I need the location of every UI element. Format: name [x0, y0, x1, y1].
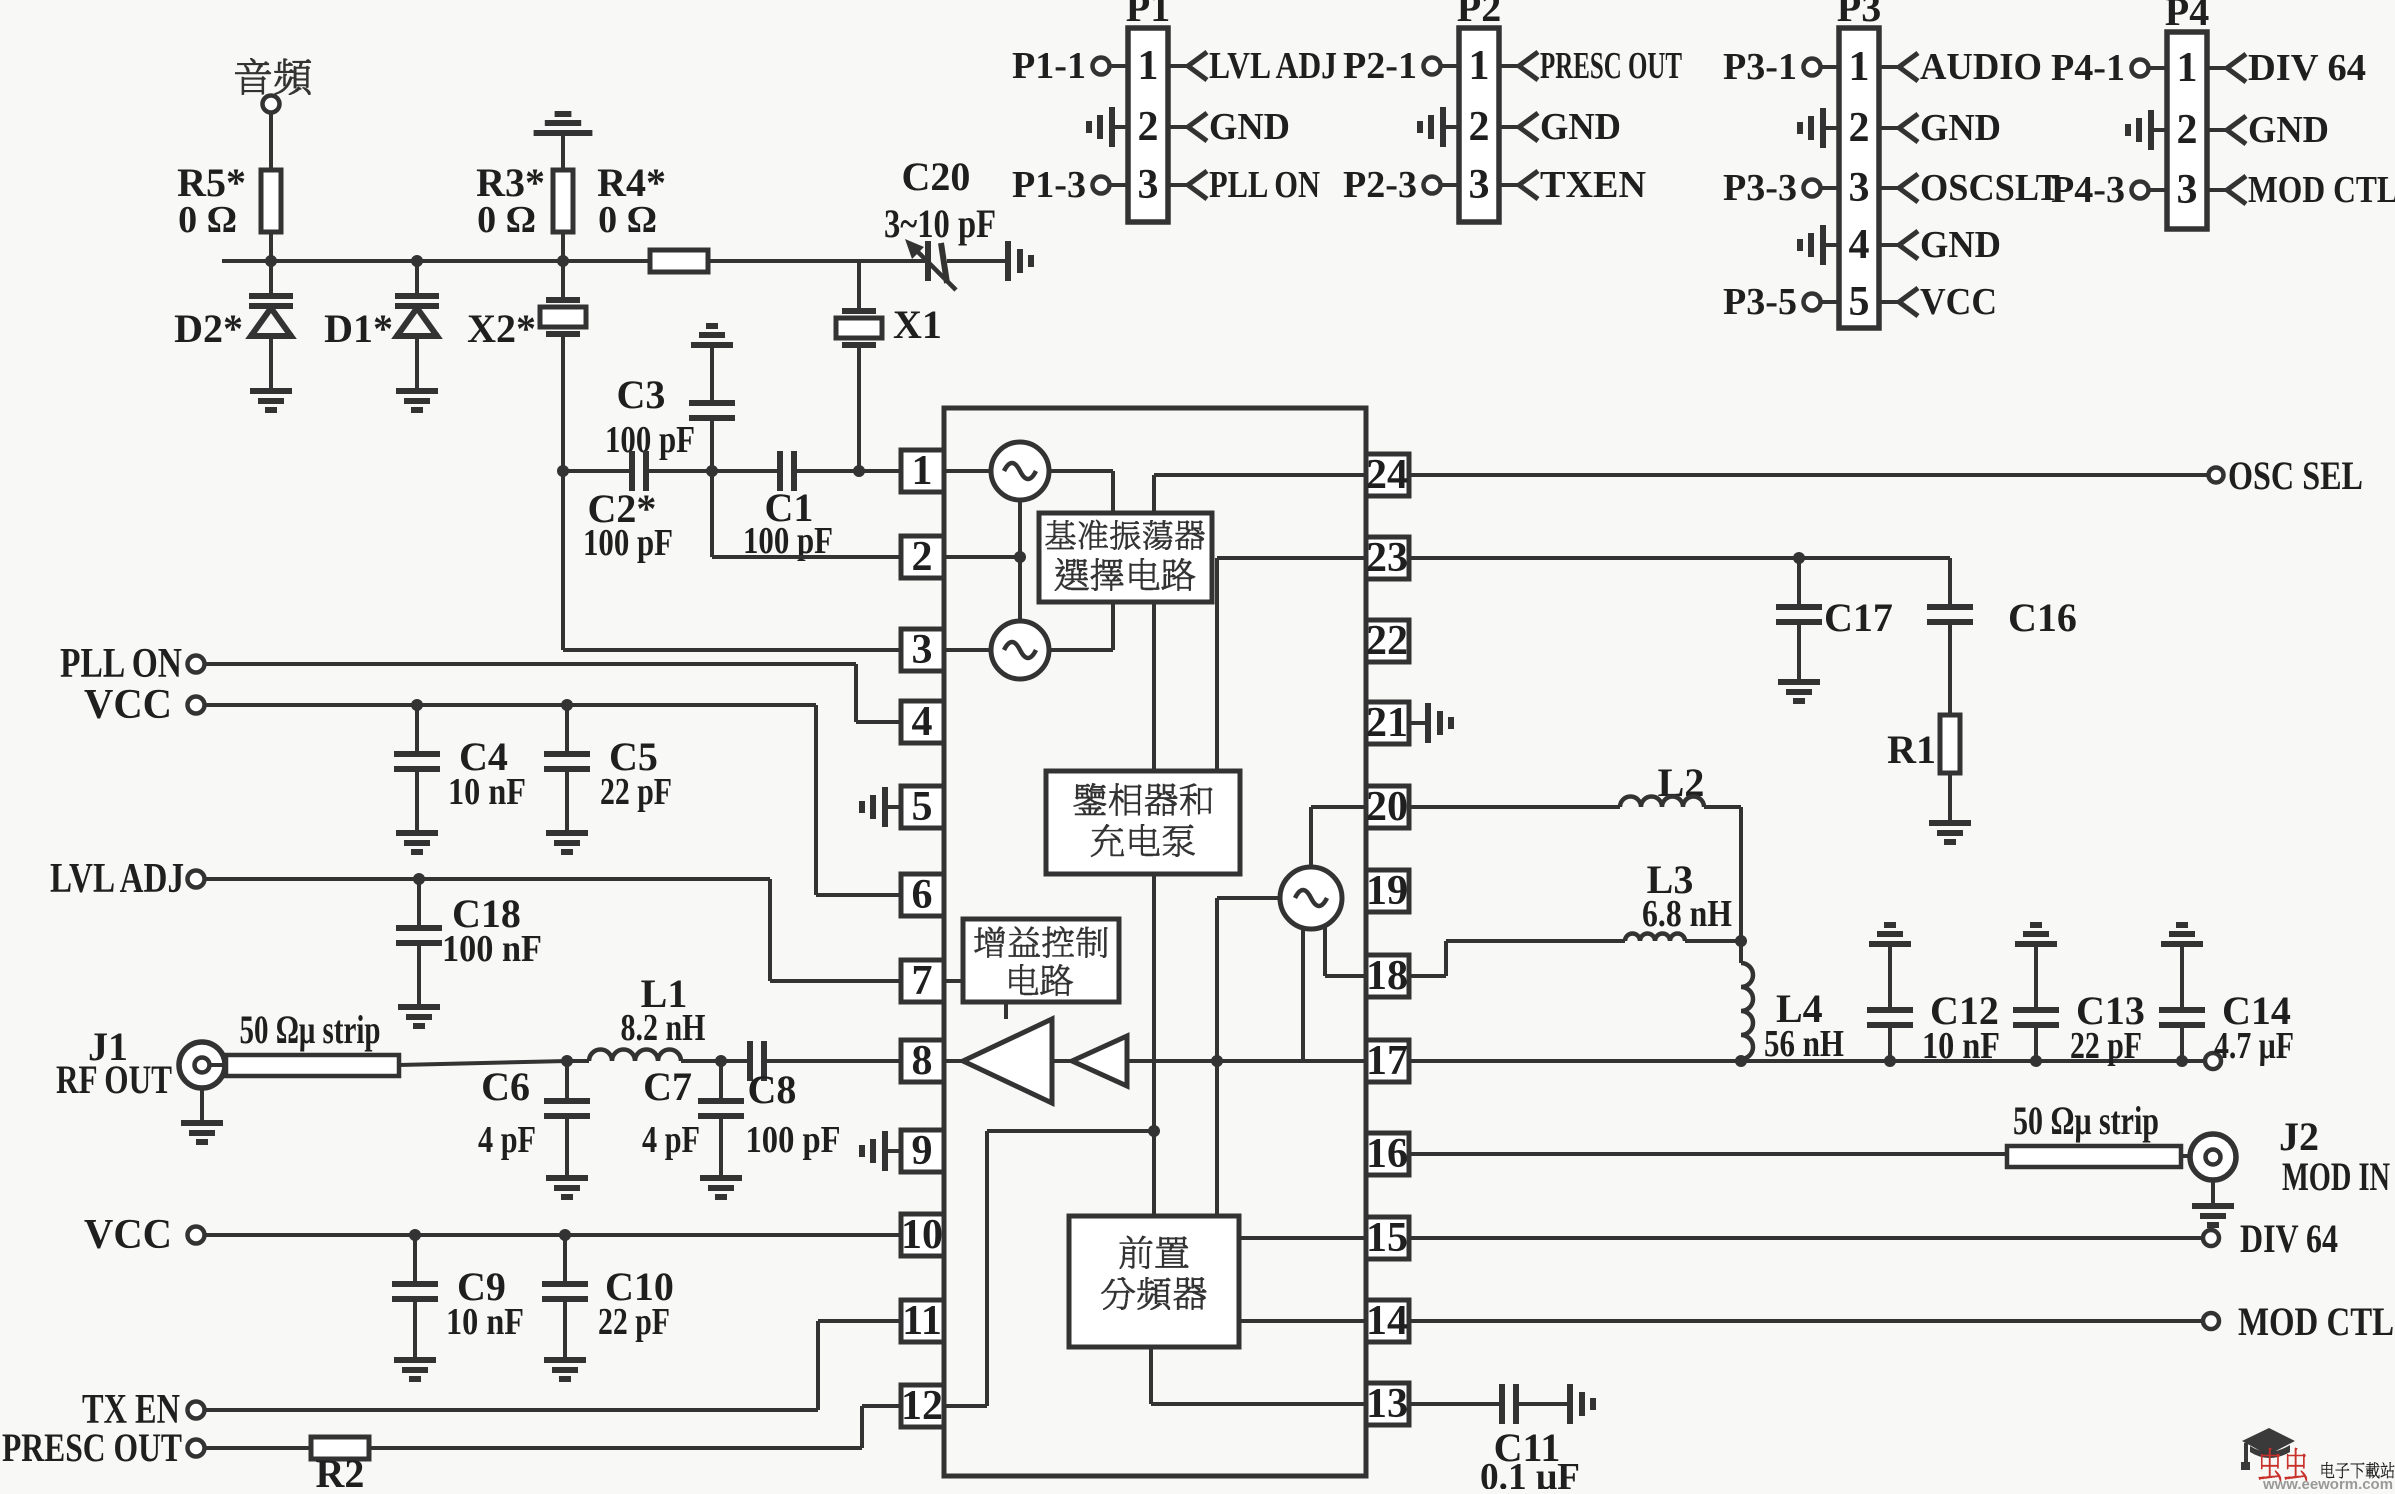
svg-text:9: 9: [912, 1128, 933, 1174]
svg-text:8.2 nH: 8.2 nH: [621, 1007, 706, 1049]
svg-text:2: 2: [912, 534, 933, 580]
capacitor C1: [712, 469, 780, 473]
wire VCO to pin 18: [1323, 924, 1327, 976]
svg-text:6.8 nH: 6.8 nH: [1642, 893, 1732, 935]
capacitor C10: [563, 1235, 567, 1284]
U1 pin 17: [1366, 1040, 1409, 1082]
svg-text:20: 20: [1366, 784, 1408, 830]
U1 pin 13: [1366, 1383, 1409, 1425]
node C6 junction: [561, 1055, 573, 1067]
amplifier A2: [1072, 1036, 1127, 1086]
net OSCSLT: [1879, 186, 1899, 190]
svg-text:3: 3: [2177, 167, 2198, 213]
svg-text:AUDIO: AUDIO: [1920, 46, 2042, 88]
wire pin 24 to OSC SEL: [1154, 473, 1366, 477]
svg-text:1: 1: [2177, 45, 2198, 91]
svg-text:VCC: VCC: [84, 682, 172, 728]
capacitor C8: [721, 1059, 750, 1063]
svg-text:8: 8: [912, 1038, 933, 1084]
svg-text:C8: C8: [748, 1067, 797, 1112]
svg-text:10 nF: 10 nF: [448, 771, 526, 813]
svg-text:22: 22: [1366, 618, 1408, 664]
net PLL ON: [1168, 183, 1188, 187]
U1 pin 9: [901, 1130, 944, 1172]
svg-text:15: 15: [1366, 1215, 1408, 1261]
capacitor C7: [719, 1061, 723, 1101]
svg-text:4.7 μF: 4.7 μF: [2214, 1025, 2294, 1067]
svg-text:D2*: D2*: [174, 306, 243, 351]
wire: [563, 259, 650, 263]
U1 pin 16: [1366, 1133, 1409, 1175]
svg-text:3: 3: [1138, 162, 1159, 208]
wire C3 junction to pin 2: [710, 471, 714, 557]
svg-text:GND: GND: [2248, 109, 2329, 151]
svg-text:D1*: D1*: [324, 306, 393, 351]
svg-text:X1: X1: [893, 302, 942, 347]
node C2/C3 junction: [706, 465, 718, 477]
diode D1 (varactor): [415, 261, 419, 296]
node 音频 (audio input terminal): [235, 58, 310, 94]
wire L2 down: [1739, 807, 1743, 941]
svg-text:C17: C17: [1824, 595, 1893, 640]
wire VCC to pin 6: [205, 703, 816, 707]
svg-text:GND: GND: [1920, 107, 2001, 149]
net TXEN: [1499, 183, 1519, 187]
capacitor C12: [1869, 925, 1911, 944]
wire LVL ADJ to pin 7: [205, 877, 770, 881]
svg-text:5: 5: [912, 784, 933, 830]
svg-text:2: 2: [1469, 104, 1490, 150]
svg-text:4 pF: 4 pF: [478, 1119, 536, 1161]
wire X2 branch to pin 3: [563, 648, 901, 652]
ground: [1570, 1384, 1593, 1424]
svg-text:0 Ω: 0 Ω: [598, 199, 657, 241]
svg-text:LVL ADJ: LVL ADJ: [1209, 45, 1337, 87]
crystal X2: [561, 261, 565, 300]
U1 pin 18: [1366, 955, 1409, 997]
wire: [399, 1061, 567, 1065]
svg-text:1: 1: [1138, 43, 1159, 89]
wire block to phase detector: [1152, 602, 1156, 771]
ground: [546, 1178, 588, 1197]
svg-text:13: 13: [1366, 1381, 1408, 1427]
svg-text:3: 3: [1469, 162, 1490, 208]
svg-text:PLL ON: PLL ON: [60, 641, 182, 687]
svg-text:OSC SEL: OSC SEL: [2228, 453, 2363, 498]
svg-text:10 nF: 10 nF: [1922, 1025, 2000, 1067]
ground: [544, 1360, 586, 1379]
net GND: [1879, 243, 1899, 247]
ground: [200, 1088, 204, 1123]
svg-text:10: 10: [901, 1212, 943, 1258]
svg-text:2: 2: [2177, 107, 2198, 153]
oscillator symbol 2: [991, 621, 1049, 679]
node main audio net wire: [222, 259, 868, 263]
wire osc1-osc2 with pin2 node: [1018, 500, 1022, 621]
U1 pin 20: [1366, 786, 1409, 828]
net DIV 64: [2207, 66, 2227, 70]
svg-text:1: 1: [1849, 44, 1870, 90]
svg-text:DIV 64: DIV 64: [2248, 47, 2366, 89]
U1 pin 1: [901, 450, 944, 492]
node C7 junction: [715, 1055, 727, 1067]
ground: [1823, 243, 1839, 247]
svg-text:18: 18: [1366, 953, 1408, 999]
svg-text:22 pF: 22 pF: [598, 1301, 670, 1343]
oscillator symbol 1 (reference osc): [944, 469, 991, 473]
wire prescaler to pin 13: [1149, 1347, 1153, 1404]
svg-text:www.eeworm.com: www.eeworm.com: [2262, 1476, 2393, 1489]
svg-text:21: 21: [1366, 700, 1408, 746]
svg-text:P4-1: P4-1: [2051, 47, 2125, 89]
ground: [534, 114, 593, 133]
wire VCO column: [1215, 898, 1219, 1216]
svg-text:C7: C7: [643, 1064, 692, 1109]
svg-text:VCC: VCC: [1920, 281, 1997, 323]
svg-text:P3-3: P3-3: [1723, 167, 1797, 209]
U1 pin 2: [901, 536, 944, 578]
net GND: [1879, 126, 1899, 130]
svg-text:OSCSLT: OSCSLT: [1920, 167, 2060, 209]
capacitor C6: [565, 1061, 569, 1101]
svg-text:P2-3: P2-3: [1343, 164, 1417, 206]
net MOD CTL: [1409, 1319, 2202, 1323]
wire pin 12 riser: [944, 1404, 987, 1408]
svg-text:RF OUT: RF OUT: [56, 1057, 172, 1102]
svg-text:C3: C3: [617, 372, 666, 417]
ground: [1008, 241, 1031, 281]
crystal X1: [857, 261, 861, 311]
capacitor C16: [1948, 558, 1952, 607]
wire phase det down to prescaler: [1152, 874, 1156, 1216]
svg-text:2: 2: [1138, 104, 1159, 150]
ground: [2211, 1180, 2215, 1206]
svg-text:R1: R1: [1887, 727, 1936, 772]
wire gain block to amplifier: [1004, 1002, 1008, 1019]
block 鉴相器和充电泵 (phase detector & charge pump): [1046, 771, 1240, 874]
svg-text:GND: GND: [1540, 106, 1621, 148]
capacitor C4: [415, 705, 419, 754]
svg-text:1: 1: [1469, 43, 1490, 89]
resistor R3: [553, 170, 573, 232]
wire PLL ON to pin 4: [205, 662, 856, 666]
svg-text:P3-5: P3-5: [1723, 281, 1797, 323]
wire pin 17 net: [1409, 1059, 2204, 1063]
net VCC: [1879, 300, 1899, 304]
ground: [2151, 128, 2167, 132]
watermark 虫虫: [2259, 1448, 2307, 1481]
svg-text:TXEN: TXEN: [1540, 164, 1646, 206]
wire VCO to pin 17 net: [1301, 927, 1305, 1061]
svg-text:23: 23: [1366, 535, 1408, 581]
svg-text:4: 4: [912, 699, 933, 745]
svg-text:17: 17: [1366, 1038, 1408, 1084]
svg-text:GND: GND: [1920, 224, 2001, 266]
ground: [546, 833, 588, 852]
wire pin 23 net: [1217, 556, 1366, 560]
net AUDIO: [1879, 65, 1899, 69]
ground: [396, 391, 438, 410]
svg-text:C20: C20: [902, 154, 971, 199]
svg-text:P1-1: P1-1: [1012, 45, 1086, 87]
svg-text:3~10 pF: 3~10 pF: [884, 201, 996, 246]
svg-text:P4: P4: [2165, 0, 2209, 34]
wire TX EN to pin 11: [205, 1408, 818, 1412]
node L2/L3/L4 junction: [1735, 935, 1747, 947]
wire VCO left: [1217, 896, 1280, 900]
svg-text:0 Ω: 0 Ω: [178, 199, 237, 241]
net PRESC OUT: [1499, 64, 1519, 68]
block 增益控制电路 (gain control): [963, 919, 1119, 1002]
net OSC SEL: [1409, 473, 2207, 477]
svg-text:MOD IN: MOD IN: [2282, 1154, 2390, 1199]
U1 pin 6: [901, 874, 944, 916]
capacitor C11: [1409, 1402, 1502, 1406]
oscillator symbol VCO: [1280, 867, 1342, 929]
diode D2 (varactor): [269, 261, 273, 296]
svg-text:VCC: VCC: [84, 1212, 172, 1258]
resistor R2: [205, 1446, 311, 1450]
net GND: [1499, 125, 1519, 129]
svg-text:1: 1: [912, 448, 933, 494]
ground at pin 9: [885, 1149, 901, 1153]
node X1 junction: [853, 465, 865, 477]
svg-text:16: 16: [1366, 1131, 1408, 1177]
svg-text:R2: R2: [316, 1451, 365, 1489]
block 前置分频器 (prescaler): [1069, 1216, 1239, 1347]
svg-text:10 nF: 10 nF: [446, 1301, 524, 1343]
U1 pin 14: [1366, 1300, 1409, 1342]
wire amp output to pin 17: [1127, 1059, 1366, 1063]
ground: [394, 1360, 436, 1379]
watermark 电子下载站: [2322, 1462, 2395, 1478]
svg-text:100 pF: 100 pF: [583, 522, 673, 564]
wire pin 23 net: [1409, 556, 1950, 560]
svg-text:PRESC OUT: PRESC OUT: [2, 1425, 182, 1470]
ground: [1823, 126, 1839, 130]
svg-text:0.1 μF: 0.1 μF: [1480, 1456, 1580, 1489]
wire PRESC OUT to pin 12: [369, 1446, 862, 1450]
node RF terminal: [2205, 1053, 2221, 1069]
U1 pin 8: [901, 1040, 944, 1082]
capacitor C17: [1797, 558, 1801, 607]
net GND: [1168, 125, 1188, 129]
svg-text:100 pF: 100 pF: [746, 1119, 841, 1161]
svg-text:14: 14: [1366, 1298, 1408, 1344]
svg-text:P1-3: P1-3: [1012, 164, 1086, 206]
wire: [561, 232, 565, 261]
ground at pin 21: [1409, 721, 1428, 725]
ground: [1443, 125, 1459, 129]
svg-text:5: 5: [1849, 279, 1870, 325]
ground at pin 5: [885, 805, 901, 809]
svg-text:0 Ω: 0 Ω: [477, 199, 536, 241]
net LVL ADJ: [1168, 64, 1188, 68]
net MOD CTL: [2207, 188, 2227, 192]
U1 pin 24: [1366, 454, 1409, 496]
svg-text:MOD CTL: MOD CTL: [2248, 169, 2395, 211]
node VCO feed junction: [1211, 1055, 1223, 1067]
svg-text:C6: C6: [481, 1064, 530, 1109]
svg-text:12: 12: [901, 1383, 943, 1429]
U1 pin 15: [1366, 1217, 1409, 1259]
capacitor C14: [2161, 925, 2203, 944]
U1 pin 4: [901, 701, 944, 743]
svg-text:P4-3: P4-3: [2051, 169, 2125, 211]
svg-text:X2*: X2*: [467, 306, 536, 351]
svg-text:P2-1: P2-1: [1343, 45, 1417, 87]
ground: [1112, 125, 1128, 129]
ground: [398, 1007, 440, 1026]
watermark logo graduation cap: [2241, 1428, 2295, 1470]
U1 pin 21: [1366, 702, 1409, 744]
capacitor C2*: [562, 469, 632, 473]
capacitor C18: [417, 879, 421, 928]
svg-text:PLL ON: PLL ON: [1209, 164, 1320, 206]
ground: [1948, 773, 1952, 823]
net DIV 64: [1409, 1236, 2202, 1240]
ground: [250, 391, 292, 410]
svg-text:MOD CTL: MOD CTL: [2238, 1299, 2394, 1344]
svg-text:GND: GND: [1209, 106, 1290, 148]
U1 pin 10: [901, 1214, 944, 1256]
ground: [700, 1178, 742, 1197]
ground: [1778, 682, 1820, 701]
wire VCC to pin 10: [205, 1233, 901, 1237]
wire VCO top to pin 20: [1309, 807, 1313, 867]
svg-text:3: 3: [1849, 165, 1870, 211]
U1 pin 7: [901, 960, 944, 1002]
svg-text:100 pF: 100 pF: [605, 419, 695, 461]
U1 pin 23: [1366, 537, 1409, 579]
net GND: [2207, 128, 2227, 132]
capacitor C3: [691, 326, 733, 345]
wire: [269, 232, 273, 261]
wire prescaler to pin 14: [1239, 1319, 1366, 1323]
svg-text:2: 2: [1849, 105, 1870, 151]
wire prescaler to pin 15: [1239, 1236, 1366, 1240]
capacitor C5: [565, 705, 569, 754]
svg-text:11: 11: [902, 1298, 942, 1344]
svg-text:50 Ωμ strip: 50 Ωμ strip: [2013, 1098, 2159, 1143]
resistor R1: [1940, 715, 1960, 773]
svg-text:LVL ADJ: LVL ADJ: [50, 856, 184, 902]
node pin-12 riser junction: [1148, 1125, 1160, 1137]
svg-text:7: 7: [912, 958, 933, 1004]
svg-text:4 pF: 4 pF: [642, 1119, 700, 1161]
svg-text:6: 6: [912, 872, 933, 918]
svg-text:50 Ωμ strip: 50 Ωμ strip: [240, 1007, 381, 1052]
U1 pin 19: [1366, 870, 1409, 912]
op-amp U1 IC body MC145170-style 24-pin: [944, 408, 1366, 1476]
block 基准振荡器选择电路 (reference oscillator select): [1049, 469, 1113, 473]
resistor R5: [261, 170, 281, 232]
svg-text:4: 4: [1849, 222, 1870, 268]
wire: [269, 113, 273, 170]
ground: [396, 833, 438, 852]
svg-text:19: 19: [1366, 868, 1408, 914]
svg-text:P3-1: P3-1: [1723, 46, 1797, 88]
amplifier A1 (output buffer): [963, 1019, 1052, 1103]
U1 pin 11: [901, 1300, 944, 1342]
svg-text:DIV 64: DIV 64: [2240, 1216, 2338, 1261]
U1 pin 3: [901, 629, 944, 671]
svg-text:22 pF: 22 pF: [600, 771, 672, 813]
svg-text:56 nH: 56 nH: [1764, 1023, 1844, 1065]
svg-text:PRESC OUT: PRESC OUT: [1540, 45, 1682, 87]
svg-text:100 nF: 100 nF: [442, 928, 542, 970]
U1 pin 22: [1366, 620, 1409, 662]
wire: [561, 133, 565, 170]
capacitor C9: [413, 1235, 417, 1284]
svg-text:24: 24: [1366, 452, 1408, 498]
svg-text:C16: C16: [2008, 595, 2077, 640]
svg-text:22 pF: 22 pF: [2070, 1025, 2142, 1067]
capacitor C13: [2015, 925, 2057, 944]
svg-text:J2: J2: [2279, 1114, 2319, 1159]
svg-text:3: 3: [912, 627, 933, 673]
U1 pin 12: [901, 1385, 944, 1427]
wire X2 to C2 junction and pin 3: [561, 334, 565, 650]
U1 pin 5: [901, 786, 944, 828]
